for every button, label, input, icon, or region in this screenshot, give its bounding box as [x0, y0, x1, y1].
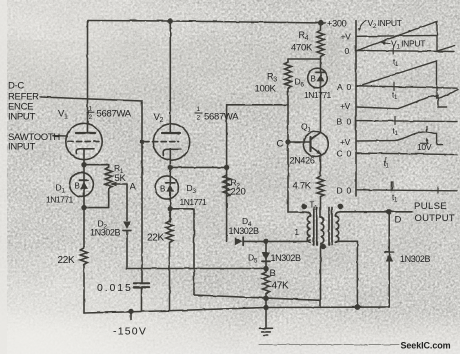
- svg-text:1N1771: 1N1771: [304, 90, 332, 100]
- wire: D2 to node B: [127, 231, 266, 269]
- svg-text:B: B: [311, 75, 316, 84]
- node: T1 bottom polarity dot: [321, 244, 325, 248]
- tube V1 plate: [76, 132, 95, 134]
- wire: C node to T1 primary top: [288, 212, 311, 216]
- svg-text:C: C: [337, 149, 343, 159]
- diode D6 (circle with B arrow): [308, 68, 328, 88]
- resistor 22K (V1 cathode): [80, 247, 87, 314]
- node: T1 secondary polarity dot: [338, 204, 342, 208]
- t1 ticks on baselines: [392, 47, 394, 55]
- resistor R2 220: [223, 175, 230, 197]
- svg-text:PULSE: PULSE: [414, 201, 447, 212]
- svg-text:INPUT: INPUT: [8, 142, 35, 153]
- label 1/2 5687WA for V1: [87, 111, 95, 113]
- transformer T1 primary winding: [307, 216, 310, 242]
- svg-text:47K: 47K: [272, 281, 290, 292]
- transistor Q1 2N426: [303, 132, 328, 157]
- wire: V2 grid net to R3 (horizontal): [227, 104, 288, 106]
- transformer T1 middle winding: [321, 217, 324, 243]
- 10V dimension arrows: [426, 126, 428, 131]
- svg-text:220: 220: [231, 187, 246, 198]
- waveform A trace: [357, 61, 458, 98]
- tube V2 envelope: [153, 124, 189, 160]
- svg-text:1N302B: 1N302B: [90, 228, 121, 238]
- resistor R1 5K (potentiometer): [105, 165, 112, 191]
- wire: D5 branch down from D4 run: [265, 241, 267, 268]
- wire: V2 plate lead: [169, 21, 171, 133]
- svg-text:+V: +V: [340, 101, 351, 111]
- svg-text:+V: +V: [341, 32, 352, 42]
- svg-text:B: B: [75, 182, 80, 191]
- transformer T1 core (right pair): [328, 208, 330, 246]
- wire: V1 plate lead: [87, 21, 89, 134]
- svg-text:5687WA: 5687WA: [97, 109, 132, 120]
- resistor R4 470K: [317, 23, 324, 59]
- svg-text:-150V: -150V: [113, 326, 147, 338]
- wire: -150V bottom rail: [84, 307, 389, 313]
- svg-text:5687WA: 5687WA: [204, 112, 239, 123]
- svg-text:A: A: [337, 82, 343, 92]
- transformer T1 secondary winding: [335, 216, 338, 242]
- node: V1 cathode junction: [82, 163, 86, 167]
- node: C node: [286, 140, 290, 144]
- svg-text:5K: 5K: [115, 173, 127, 184]
- wire: D-C reference input: [41, 97, 142, 142]
- waveform D baseline: [356, 190, 457, 191]
- svg-text:B: B: [337, 117, 343, 127]
- diode D2 1N302B (pointing down): [123, 222, 131, 230]
- waveform V2/V1 input baseline: [356, 51, 454, 52]
- wire: secondary bottom to rail: [335, 241, 357, 307]
- wire: secondary top to pulse output: [335, 212, 412, 216]
- wire: R3 top to R4/D6 node: [288, 58, 321, 60]
- svg-text:1N1771: 1N1771: [180, 197, 208, 207]
- wire: V2 grid line down to 0.015 capacitor: [141, 142, 143, 284]
- svg-text:0: 0: [347, 186, 352, 196]
- wire: R1 bottom return to cathode line: [84, 191, 109, 208]
- diode D3 (circle with B arrow): [155, 176, 178, 199]
- diode D5 1N302B (pointing down): [262, 253, 270, 261]
- ground: [265, 297, 267, 328]
- wire: middle winding bottom to rail: [320, 243, 322, 307]
- node: D3 bottom junction: [168, 207, 172, 211]
- tube V1 grid (dashed): [68, 141, 101, 143]
- node: pulse output junction D: [387, 210, 391, 214]
- svg-text:0.015: 0.015: [97, 282, 133, 294]
- node: secondary bottom on rail: [356, 305, 360, 309]
- node: V2 plate junction on +300 bus: [168, 19, 172, 23]
- wire: D4 output run to transformer primary bottom: [243, 240, 310, 241]
- svg-text:100K: 100K: [255, 84, 277, 95]
- svg-text:0: 0: [347, 117, 352, 127]
- waveform V1 input level: [357, 34, 438, 37]
- waveform D pulse: [391, 182, 393, 191]
- svg-text:1N302B: 1N302B: [400, 254, 431, 264]
- wire: D2 branch from wiper down: [126, 184, 128, 221]
- wire: C node to Q1 base: [288, 141, 311, 143]
- wire: V2 cathode lead down to D3: [169, 149, 171, 222]
- svg-text:D: D: [395, 215, 402, 226]
- resistor R3 100K: [285, 59, 292, 105]
- wire: C node vertical: [287, 105, 289, 212]
- svg-text:2N426: 2N426: [290, 156, 315, 166]
- tube V1 envelope: [66, 123, 102, 159]
- svg-text:1N302B: 1N302B: [271, 253, 302, 263]
- wire: Q1 emitter to 4.7K: [320, 154, 322, 176]
- node: D5 junction: [264, 239, 268, 243]
- svg-text:1N1771: 1N1771: [46, 195, 74, 205]
- svg-text:0: 0: [347, 82, 352, 92]
- transformer T1 core (left pair): [313, 208, 315, 246]
- wire: V1 cathode to R1 top: [84, 164, 109, 166]
- waveform C trace: [357, 132, 443, 145]
- node: -150V tap: [129, 310, 133, 314]
- svg-text:D-C: D-C: [8, 81, 24, 92]
- resistor 47K: [263, 269, 270, 297]
- waveform A baseline: [356, 86, 457, 88]
- svg-text:+300: +300: [327, 19, 347, 29]
- waveform panel axis: [355, 21, 357, 197]
- node: R4 junction on +300 bus: [319, 21, 323, 25]
- wire: pulse diode branch: [388, 212, 390, 307]
- svg-text:4.7K: 4.7K: [293, 181, 312, 192]
- svg-text:0: 0: [347, 149, 352, 159]
- waveform V2 input sawtooth: [357, 22, 455, 52]
- waveform C baseline: [356, 153, 457, 155]
- tube V2 grid (dashed): [144, 141, 179, 143]
- svg-text:C: C: [277, 139, 284, 150]
- svg-text:OUTPUT: OUTPUT: [415, 213, 455, 224]
- svg-text:470K: 470K: [291, 43, 313, 54]
- node: ground junction on rail: [264, 306, 268, 310]
- node: T1 primary polarity dot: [302, 204, 306, 208]
- wire: 47K lower run: [194, 295, 321, 300]
- svg-text:+V: +V: [340, 137, 351, 147]
- wire: sawtooth input to V1 grid: [53, 135, 67, 137]
- node: R1 bottom junction: [82, 206, 86, 210]
- V2 INPUT pointer arrow: [360, 21, 367, 29]
- svg-text:D: D: [337, 186, 343, 196]
- resistor 4.7K: [317, 176, 324, 197]
- wire: R2 vertical from corner: [226, 105, 228, 242]
- wire: V1 cathode lead: [83, 149, 85, 247]
- wire: Q1 emitter winding lead: [320, 197, 322, 218]
- wire: top +300 bus: [88, 21, 326, 24]
- V1 INPUT pointer arrow: [384, 42, 391, 45]
- resistor 22K (D3 branch): [166, 209, 173, 311]
- svg-text:22K: 22K: [58, 255, 76, 266]
- node: ground junction on 47K run: [264, 296, 268, 300]
- R1 wiper arrow to node A: [114, 183, 128, 185]
- waveform B baseline: [356, 121, 457, 122]
- tube V2 plate: [162, 132, 180, 134]
- svg-text:22K: 22K: [147, 233, 165, 244]
- diode 1N302B (output clamp, pointing up): [385, 254, 393, 262]
- label 1/2 5687WA for V2: [195, 112, 203, 114]
- node: V2 grid node A-line top: [140, 140, 144, 144]
- svg-text:B: B: [270, 268, 276, 279]
- diode D4 1N302B (pointing right): [235, 237, 243, 245]
- tube V2 cathode: [163, 149, 181, 155]
- wire: capacitor bottom to -150V rail: [141, 288, 143, 311]
- svg-text:SeekIC.com: SeekIC.com: [401, 341, 451, 351]
- svg-text:10V: 10V: [417, 142, 432, 152]
- svg-text:INPUT: INPUT: [8, 112, 35, 123]
- node: V2 cathode junction: [168, 166, 172, 170]
- wire: V2 cathode to R2: [170, 166, 226, 168]
- SeekIC underline: [259, 344, 399, 346]
- tube V1 cathode: [76, 149, 94, 154]
- svg-text:A: A: [130, 182, 137, 193]
- capacitor 0.015 plates: [134, 282, 149, 284]
- node: R2/cathode wire junction: [225, 166, 229, 170]
- wire: D3 bottom to 47K line: [170, 209, 194, 295]
- wire: D6 chain down to Q1 collector: [320, 59, 322, 133]
- 10V overline: [421, 142, 428, 144]
- svg-text:B: B: [160, 185, 165, 194]
- node: B node: [264, 267, 268, 271]
- svg-text:0: 0: [345, 46, 350, 56]
- diode D1 (circle with B arrow): [70, 173, 94, 197]
- svg-text:1N302B: 1N302B: [229, 226, 260, 236]
- waveform B trace: [357, 96, 447, 109]
